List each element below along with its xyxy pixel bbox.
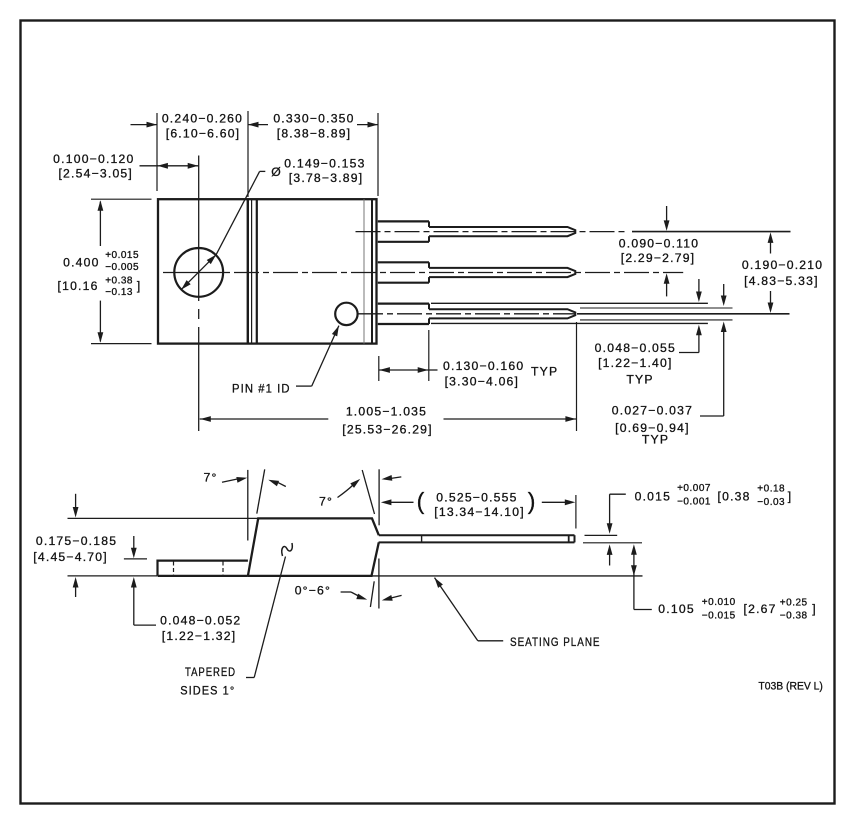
svg-text:+0.25: +0.25 (780, 597, 808, 608)
svg-text:[25.53−26.29]: [25.53−26.29] (342, 422, 433, 436)
svg-text:T03B (REV L): T03B (REV L) (758, 680, 823, 692)
svg-text:−0.38: −0.38 (780, 611, 808, 622)
svg-text:0.175−0.185: 0.175−0.185 (36, 534, 117, 548)
svg-text:1.005−1.035: 1.005−1.035 (346, 404, 427, 418)
svg-text:(: ( (417, 488, 425, 514)
svg-text:[4.83−5.33]: [4.83−5.33] (744, 274, 819, 288)
svg-text:0.048−0.055: 0.048−0.055 (595, 341, 676, 355)
svg-text:7°: 7° (319, 494, 333, 508)
svg-text:0.240−0.260: 0.240−0.260 (162, 112, 243, 126)
svg-text:[1.22−1.32]: [1.22−1.32] (162, 629, 237, 643)
svg-text:TYP: TYP (626, 373, 653, 387)
svg-text:0.027−0.037: 0.027−0.037 (612, 404, 693, 418)
svg-text:[0.38: [0.38 (718, 489, 751, 503)
svg-text:[8.38−8.89]: [8.38−8.89] (277, 126, 352, 140)
svg-text:[2.54−3.05]: [2.54−3.05] (58, 166, 133, 180)
svg-text:+0.18: +0.18 (757, 484, 785, 495)
svg-text:+0.010: +0.010 (702, 597, 736, 608)
svg-text:TAPERED: TAPERED (185, 665, 236, 679)
svg-text:[2.67: [2.67 (744, 602, 777, 616)
svg-text:TYP: TYP (642, 433, 669, 447)
svg-text:[10.16: [10.16 (58, 279, 99, 293)
svg-text:−0.005: −0.005 (105, 262, 139, 273)
svg-text:+0.007: +0.007 (677, 483, 711, 494)
svg-text:−0.001: −0.001 (677, 497, 711, 508)
svg-text:Ø: Ø (271, 165, 282, 179)
svg-text:[6.10−6.60]: [6.10−6.60] (166, 126, 241, 140)
svg-text:[3.78−3.89]: [3.78−3.89] (289, 171, 364, 185)
svg-text:PIN #1 ID: PIN #1 ID (232, 381, 291, 395)
svg-text:+0.015: +0.015 (105, 250, 139, 261)
svg-text:+0.38: +0.38 (105, 276, 133, 287)
svg-text:0.090−0.110: 0.090−0.110 (619, 237, 699, 251)
svg-text:−0.03: −0.03 (757, 497, 785, 508)
svg-text:0.048−0.052: 0.048−0.052 (160, 613, 241, 627)
svg-text:−0.015: −0.015 (702, 611, 736, 622)
svg-text:[13.34−14.10]: [13.34−14.10] (434, 505, 525, 519)
svg-text:]: ] (812, 602, 817, 616)
svg-text:0.105: 0.105 (658, 602, 695, 616)
svg-text:): ) (528, 488, 536, 514)
svg-text:7°: 7° (204, 471, 218, 485)
svg-text:0.525−0.555: 0.525−0.555 (436, 490, 517, 504)
svg-text:0.100−0.120: 0.100−0.120 (53, 152, 134, 166)
svg-text:0.015: 0.015 (635, 489, 672, 503)
svg-text:[1.22−1.40]: [1.22−1.40] (598, 356, 673, 370)
svg-text:SEATING PLANE: SEATING PLANE (510, 635, 601, 649)
svg-text:0.190−0.210: 0.190−0.210 (742, 258, 823, 272)
svg-text:[3.30−4.06]: [3.30−4.06] (445, 374, 520, 388)
svg-text:−0.13: −0.13 (105, 287, 133, 298)
svg-text:SIDES 1°: SIDES 1° (180, 684, 235, 698)
svg-text:TYP: TYP (531, 365, 558, 379)
svg-text:[4.45−4.70]: [4.45−4.70] (33, 550, 108, 564)
svg-text:[2.29−2.79]: [2.29−2.79] (621, 251, 696, 265)
svg-text:0.149−0.153: 0.149−0.153 (284, 156, 365, 170)
svg-text:0°−6°: 0°−6° (295, 583, 331, 597)
svg-text:0.400: 0.400 (63, 255, 100, 269)
svg-text:0.330−0.350: 0.330−0.350 (273, 112, 354, 126)
svg-text:]: ] (137, 279, 142, 293)
svg-text:0.130−0.160: 0.130−0.160 (443, 359, 524, 373)
svg-text:]: ] (788, 489, 793, 503)
